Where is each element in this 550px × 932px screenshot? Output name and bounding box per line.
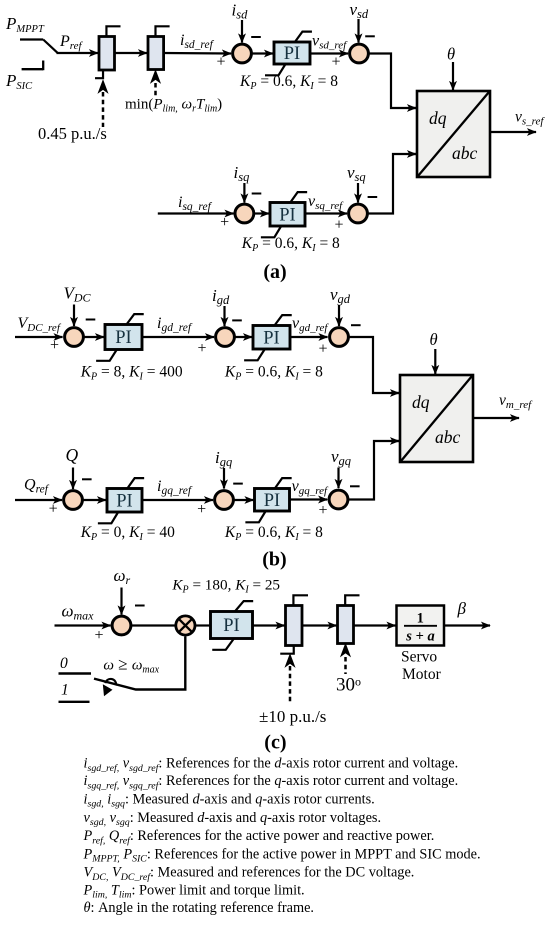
svg-text:abc: abc [452, 143, 478, 163]
svg-text:1: 1 [61, 682, 69, 699]
svg-text:isgd, isgq: Measured d-axis an: isgd, isgq: Measured d-axis and q-axis r… [84, 791, 375, 809]
svg-text:PI: PI [264, 491, 280, 511]
svg-text:s + a: s + a [405, 629, 434, 645]
svg-text:θ: θ [447, 45, 455, 64]
svg-text:+: + [318, 341, 327, 358]
svg-text:PI: PI [284, 44, 300, 64]
svg-text:0: 0 [60, 655, 68, 672]
svg-text:+: + [197, 340, 206, 357]
svg-text:+: + [220, 214, 229, 231]
svg-text:(b): (b) [262, 549, 286, 571]
svg-text:+: + [197, 501, 206, 518]
svg-text:β: β [457, 599, 467, 618]
svg-text:0.45 p.u./s: 0.45 p.u./s [38, 124, 107, 143]
svg-text:Pref, Qref: References for the: Pref, Qref: References for the active po… [83, 828, 435, 846]
svg-text:+: + [334, 216, 343, 233]
svg-text:PI: PI [223, 616, 239, 636]
svg-text:+: + [318, 502, 327, 519]
svg-text:Plim, Tlim: Power limit and to: Plim, Tlim: Power limit and torque limit… [83, 882, 305, 900]
svg-text:+: + [331, 53, 340, 70]
svg-text:PI: PI [279, 205, 295, 225]
svg-text:(a): (a) [263, 261, 286, 283]
svg-text:+: + [216, 54, 225, 71]
svg-text:+: + [94, 627, 103, 644]
svg-text:+: + [49, 501, 58, 518]
svg-text:(c): (c) [264, 732, 286, 754]
svg-text:Motor: Motor [402, 666, 442, 683]
svg-text:Servo: Servo [401, 649, 437, 666]
svg-text:dq: dq [412, 392, 430, 412]
svg-text:θ: θ [430, 330, 438, 349]
svg-text:+: + [50, 337, 59, 354]
svg-text:PI: PI [116, 491, 132, 511]
svg-text:abc: abc [435, 427, 461, 447]
svg-text:±10 p.u./s: ±10 p.u./s [259, 707, 326, 726]
svg-text:Q: Q [66, 445, 79, 465]
svg-text:PI: PI [115, 328, 131, 348]
svg-text:1: 1 [417, 611, 424, 627]
svg-text:PI: PI [263, 328, 279, 348]
svg-text:θ: Angle in the rotating refer: θ: Angle in the rotating reference frame… [84, 900, 315, 916]
svg-text:KP = 180, KI = 25: KP = 180, KI = 25 [171, 577, 280, 596]
svg-text:dq: dq [429, 108, 447, 128]
